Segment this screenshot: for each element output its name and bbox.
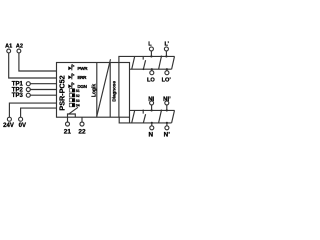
DIP switch S1 xyxy=(69,89,80,93)
wire A1 to module xyxy=(9,53,57,78)
svg-text:S1: S1 xyxy=(76,89,80,93)
LED PWR xyxy=(68,65,88,72)
terminal NI' xyxy=(163,97,171,110)
svg-text:LO’: LO’ xyxy=(162,77,172,83)
wire module to L rail xyxy=(119,56,175,62)
DIP switch S2 xyxy=(69,94,80,98)
wire A2 to module xyxy=(19,53,57,71)
svg-text:Logik: Logik xyxy=(92,84,98,98)
LO bottom rail xyxy=(130,68,172,70)
terminal L' xyxy=(164,42,169,57)
DIP switch S4 xyxy=(69,103,80,107)
node L xyxy=(150,55,152,57)
node N' xyxy=(166,122,168,124)
NI top rail xyxy=(130,109,175,111)
svg-text:ERR: ERR xyxy=(77,75,87,80)
node NI' xyxy=(166,109,168,111)
contact group L frame right slant xyxy=(172,56,175,69)
svg-text:S2: S2 xyxy=(76,94,80,98)
svg-text:N’: N’ xyxy=(164,132,171,139)
terminal 24V xyxy=(3,117,14,129)
terminal N' xyxy=(164,123,171,139)
contact group N frame right slant xyxy=(172,110,175,123)
LED ERR xyxy=(68,74,87,81)
module isolation diagonal xyxy=(97,59,111,116)
relay contact K1 (21/22) xyxy=(68,107,79,117)
node divider top L group xyxy=(161,56,163,58)
wire TP2 xyxy=(30,89,56,91)
svg-text:Diagnose: Diagnose xyxy=(111,81,116,102)
terminal A1 xyxy=(5,44,12,53)
DIP switch S3 xyxy=(69,99,80,103)
terminal N xyxy=(149,123,154,139)
node LO xyxy=(151,68,153,70)
terminal 0V xyxy=(19,117,26,129)
terminal 21 xyxy=(64,117,72,136)
contact group N frame left slant xyxy=(132,110,135,123)
svg-text:PWR: PWR xyxy=(77,66,88,71)
contact N blade xyxy=(142,110,145,123)
svg-text:LO: LO xyxy=(147,77,155,83)
wire TP3 xyxy=(30,94,56,96)
svg-text:21: 21 xyxy=(64,129,72,136)
wire 24V to module xyxy=(9,103,56,117)
terminal A2 xyxy=(16,44,23,53)
LED DGN xyxy=(68,83,87,90)
wire module bottom to N rail xyxy=(119,117,171,123)
terminal L xyxy=(148,42,153,57)
module divider diagnose-left xyxy=(109,63,111,118)
terminal 22 xyxy=(78,117,86,136)
node LO' xyxy=(166,68,168,70)
contact L blade xyxy=(143,56,146,70)
module PSR-PC52 box xyxy=(57,63,130,118)
wire 0V to module xyxy=(21,108,57,117)
contact group L frame left slant xyxy=(132,56,135,69)
terminal LO' xyxy=(162,69,172,83)
terminal NI xyxy=(148,97,154,110)
svg-text:PSR-PC52: PSR-PC52 xyxy=(57,75,66,110)
node L' xyxy=(165,55,167,57)
wire TP1 xyxy=(30,83,56,85)
node divider top N group xyxy=(161,110,163,112)
svg-text:S3: S3 xyxy=(76,99,80,103)
wire module corner stub xyxy=(129,117,131,123)
terminal LO xyxy=(147,69,155,83)
contact group L divider slant xyxy=(159,56,162,69)
svg-text:N: N xyxy=(149,132,154,139)
svg-text:22: 22 xyxy=(78,129,86,136)
node NI xyxy=(151,109,153,111)
svg-text:TP3: TP3 xyxy=(12,93,24,99)
terminal TP3 xyxy=(12,93,31,99)
module divider logic-left xyxy=(96,63,98,118)
terminal TP2 xyxy=(12,88,31,94)
node N xyxy=(151,122,153,124)
svg-text:0V: 0V xyxy=(19,123,26,129)
contact group N divider slant xyxy=(159,110,162,123)
module divider diagnose-right xyxy=(118,63,120,118)
svg-text:24V: 24V xyxy=(3,123,14,129)
terminal TP1 xyxy=(12,82,31,88)
